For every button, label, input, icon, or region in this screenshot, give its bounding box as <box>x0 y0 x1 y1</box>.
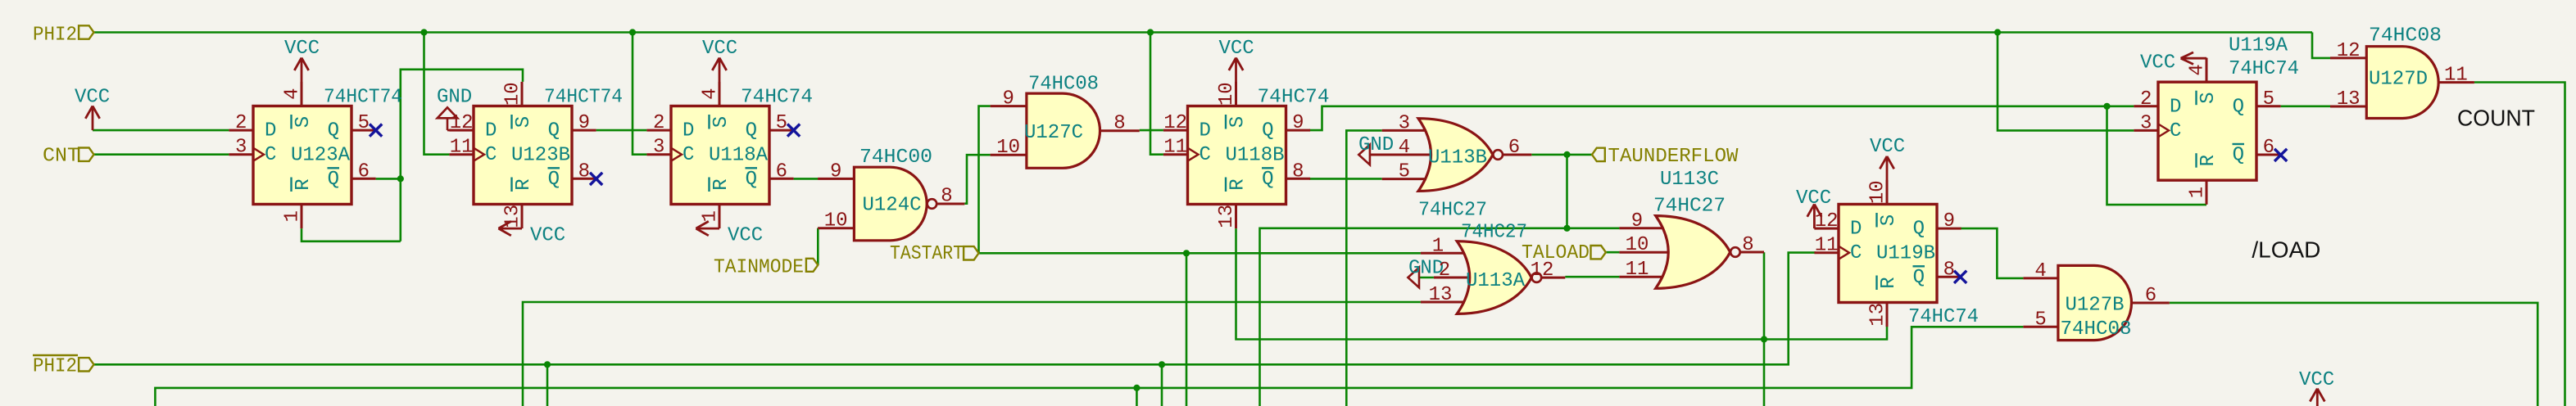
power VCC at U123B pin 13 <box>498 221 565 246</box>
svg-text:C: C <box>1200 144 1211 166</box>
wire PHI2-bar drop 2 <box>1161 364 1163 406</box>
net label PHI2-bar <box>33 355 94 378</box>
text /LOAD <box>2252 237 2320 263</box>
svg-text:4: 4 <box>1399 137 1410 159</box>
net label PHI2 <box>33 25 77 47</box>
svg-text:12: 12 <box>1163 112 1187 134</box>
power VCC at U119B pin 12 <box>1796 187 1839 228</box>
NAND gate U124C <box>818 147 964 241</box>
svg-text:U113B: U113B <box>1428 147 1487 169</box>
svg-text:8: 8 <box>941 186 952 208</box>
svg-text:2: 2 <box>235 112 247 134</box>
wire pin5 feed drop <box>1136 388 1138 406</box>
svg-text:12: 12 <box>2337 40 2361 62</box>
value 74HCT74 of U123B <box>544 87 623 109</box>
wire TALOAD to U113C pin 10 <box>1606 251 1620 254</box>
wire U113B pin 3 from off-sheet <box>1346 130 1381 406</box>
svg-text:1: 1 <box>1432 235 1444 257</box>
svg-text:74HC08: 74HC08 <box>1028 74 1099 96</box>
svg-text:9: 9 <box>830 160 841 183</box>
svg-text:S: S <box>1878 214 1900 226</box>
svg-text:R: R <box>710 178 732 190</box>
AND gate U127B <box>2023 260 2169 341</box>
svg-text:U123B: U123B <box>511 145 570 167</box>
svg-text:VCC: VCC <box>1796 187 1831 210</box>
svg-text:COUNT: COUNT <box>2457 106 2535 131</box>
svg-text:D: D <box>1850 219 1862 241</box>
svg-text:Q: Q <box>1913 219 1925 241</box>
svg-text:5: 5 <box>776 112 787 134</box>
wire TAINMODE to U124C pin 10 <box>817 228 819 265</box>
svg-text:10: 10 <box>824 210 848 232</box>
no-connect U123A pin 5 <box>370 124 382 137</box>
junction U119A D loop <box>2103 103 2110 110</box>
svg-text:VCC: VCC <box>2299 369 2334 391</box>
wire TASTART drop off-sheet <box>1186 253 1188 406</box>
wire PHI2 horizontal bus <box>94 31 2313 34</box>
svg-text:Q: Q <box>328 169 339 191</box>
svg-text:VCC: VCC <box>702 38 737 60</box>
svg-text:S: S <box>710 116 732 128</box>
svg-text:4: 4 <box>2187 64 2209 75</box>
svg-text:U127B: U127B <box>2066 295 2125 317</box>
svg-text:4: 4 <box>700 88 722 99</box>
value 74HC74 of U119B <box>1908 306 1979 328</box>
net label TASTART <box>890 243 979 265</box>
wire U127B out <box>2170 303 2537 406</box>
svg-text:10: 10 <box>996 137 1020 159</box>
flip-flop U118A 74HC74 <box>646 82 793 228</box>
svg-text:Q: Q <box>2233 96 2244 118</box>
junction TAUNDERFLOW/U113C <box>1563 225 1570 232</box>
svg-text:TASTART: TASTART <box>890 243 964 265</box>
svg-text:5: 5 <box>1399 161 1410 183</box>
svg-text:11: 11 <box>1626 259 1649 281</box>
wire U113A out to U113C pin 11 <box>1565 276 1619 278</box>
power VCC at U123A pin 2 <box>75 87 110 131</box>
wire TAUNDERFLOW down <box>1566 155 1568 228</box>
svg-text:C: C <box>2170 120 2181 142</box>
svg-text:Q: Q <box>746 169 757 191</box>
svg-text:12: 12 <box>450 112 474 134</box>
svg-text:5: 5 <box>358 112 370 134</box>
svg-text:13: 13 <box>1429 284 1453 306</box>
svg-text:Q: Q <box>1913 267 1925 289</box>
svg-text:D: D <box>683 120 694 142</box>
value 74HCT74 of U123A <box>324 87 402 109</box>
net label TALOAD <box>1522 242 1606 264</box>
svg-text:11: 11 <box>1815 235 1839 257</box>
power GND at U113B pin 4 <box>1358 134 1394 165</box>
svg-text:U113C: U113C <box>1660 169 1719 191</box>
wire U113C pin 9 feed <box>1260 228 1620 406</box>
svg-text:74HCT74: 74HCT74 <box>544 87 623 109</box>
svg-text:2: 2 <box>2140 88 2152 111</box>
svg-text:4: 4 <box>282 88 304 99</box>
svg-text:74HC27: 74HC27 <box>1418 200 1487 222</box>
svg-text:8: 8 <box>1943 259 1955 281</box>
wire PHI2 drop to U119A clock <box>1998 33 2134 131</box>
wire U124C out to U127C pin 10 <box>964 155 990 204</box>
flip-flop U118B 74HC74 <box>1163 82 1310 228</box>
svg-text:PHI2: PHI2 <box>33 356 77 378</box>
wire U113B out to TAUNDERFLOW <box>1531 154 1592 156</box>
wire U119B Q to U127B pin 4 <box>1961 228 2024 278</box>
svg-text:R: R <box>293 178 315 190</box>
svg-text:U123A: U123A <box>291 145 351 167</box>
svg-text:2: 2 <box>653 112 664 134</box>
svg-text:Q: Q <box>1262 120 1273 142</box>
svg-text:74HC74: 74HC74 <box>741 87 813 109</box>
wire U118B Q to U119A D <box>1309 106 2134 130</box>
svg-text:VCC: VCC <box>284 38 320 60</box>
svg-text:74HC27: 74HC27 <box>1653 196 1726 218</box>
svg-text:1: 1 <box>2187 187 2209 198</box>
svg-text:C: C <box>265 144 276 166</box>
junction PHI2/U123B <box>420 29 427 35</box>
svg-text:11: 11 <box>450 137 474 159</box>
power VCC bottom right <box>2299 369 2334 406</box>
wire PHI2 drop to U127D pin 12 <box>2312 33 2330 58</box>
svg-text:U119A: U119A <box>2229 35 2288 57</box>
power GND at U123B pin 12 <box>437 87 472 119</box>
svg-text:1: 1 <box>700 210 722 222</box>
svg-text:9: 9 <box>578 112 590 134</box>
svg-text:9: 9 <box>1002 88 1014 111</box>
svg-text:C: C <box>1850 242 1862 264</box>
svg-text:VCC: VCC <box>530 224 565 246</box>
svg-text:PHI2: PHI2 <box>33 25 77 47</box>
wire U127D out COUNT <box>2474 83 2565 406</box>
text COUNT <box>2457 106 2535 131</box>
svg-text:R: R <box>513 178 535 190</box>
svg-text:5: 5 <box>2263 88 2274 111</box>
wire PHI2 drop to U118A clock <box>633 33 646 155</box>
svg-text:4: 4 <box>2034 260 2046 282</box>
svg-text:D: D <box>1200 120 1211 142</box>
svg-text:1: 1 <box>282 210 304 222</box>
junction TAUNDERFLOW <box>1563 151 1570 158</box>
power VCC at U123A pin 4 <box>284 38 320 106</box>
svg-text:74HC08: 74HC08 <box>2061 318 2132 341</box>
svg-text:U124C: U124C <box>863 195 922 217</box>
wire U119A Q to U127D pin 13 <box>2281 106 2330 108</box>
junction PHI2/U119A <box>1994 29 2001 35</box>
no-connect U118A pin 5 <box>787 124 800 137</box>
svg-text:6: 6 <box>2145 285 2156 307</box>
reference U119A <box>2229 35 2288 57</box>
svg-text:Q: Q <box>328 120 339 142</box>
svg-text:13: 13 <box>1216 205 1238 228</box>
svg-text:9: 9 <box>1292 112 1304 134</box>
GND stem U123B <box>447 118 474 130</box>
svg-text:GND: GND <box>437 87 472 109</box>
flip-flop U123A 74HCT74 <box>229 82 375 228</box>
svg-text:11: 11 <box>1163 137 1187 159</box>
junction pin5 feed <box>1133 385 1140 391</box>
svg-text:3: 3 <box>235 137 247 159</box>
wire U123B Q to U118A D <box>596 129 647 132</box>
svg-text:D: D <box>265 120 276 142</box>
svg-text:13: 13 <box>2337 88 2361 111</box>
svg-text:R: R <box>2197 155 2220 166</box>
net label TAUNDERFLOW <box>1592 146 1739 168</box>
svg-text:8: 8 <box>1292 160 1304 183</box>
svg-text:/LOAD: /LOAD <box>2252 237 2320 263</box>
svg-text:GND: GND <box>1358 134 1394 156</box>
svg-text:9: 9 <box>1943 210 1955 232</box>
svg-text:74HC27: 74HC27 <box>1461 222 1527 244</box>
svg-text:13: 13 <box>502 205 524 228</box>
wire U113A pin 13 feed <box>523 302 1421 406</box>
svg-text:TAINMODE: TAINMODE <box>714 257 804 279</box>
svg-text:10: 10 <box>502 82 524 106</box>
wire GND to U113A pin 2 <box>1419 277 1434 279</box>
wire U118A Q-bar to U124C <box>794 178 819 180</box>
power VCC at U118B pin 10 <box>1219 38 1254 106</box>
svg-text:S: S <box>1227 116 1249 128</box>
junction PHI2/U118A <box>629 29 636 35</box>
svg-text:8: 8 <box>578 160 590 183</box>
no-connect U119B pin 8 <box>1954 271 1966 283</box>
power VCC at U118A pin 4 <box>702 38 737 106</box>
svg-text:9: 9 <box>1631 210 1643 232</box>
value 74HC74 of U119A <box>2229 58 2299 80</box>
wire PHI2-bar drop 1 <box>546 364 549 406</box>
svg-text:6: 6 <box>358 160 370 183</box>
svg-text:Q: Q <box>548 120 560 142</box>
wire TASTART to U127C pin 9 <box>979 106 991 254</box>
junction PHI2-bar 1 <box>544 361 551 368</box>
svg-text:12: 12 <box>1531 259 1554 282</box>
svg-text:TAUNDERFLOW: TAUNDERFLOW <box>1608 146 1739 168</box>
svg-text:VCC: VCC <box>1219 38 1254 60</box>
svg-text:U118A: U118A <box>709 145 769 167</box>
svg-text:U127D: U127D <box>2369 69 2428 91</box>
svg-text:U118B: U118B <box>1226 145 1285 167</box>
svg-text:Q: Q <box>746 120 757 142</box>
junction PHI2-bar 2 <box>1159 361 1165 368</box>
svg-text:Q: Q <box>548 169 560 191</box>
wire U119A D to R-bar loop <box>2107 106 2207 205</box>
svg-text:6: 6 <box>1508 137 1520 159</box>
svg-text:S: S <box>2197 92 2220 103</box>
svg-text:Q: Q <box>1262 169 1273 191</box>
svg-text:11: 11 <box>2444 65 2468 87</box>
svg-text:D: D <box>2170 96 2181 118</box>
net label TAINMODE <box>714 257 818 279</box>
svg-text:74HC08: 74HC08 <box>2369 25 2442 47</box>
wire U123A R-bar loop <box>302 228 401 241</box>
global label tag PHI2 <box>79 25 93 38</box>
power VCC at U119B pin 10 <box>1870 136 1905 205</box>
svg-text:6: 6 <box>2263 137 2274 159</box>
value 74HC74 of U118A <box>741 87 813 109</box>
flip-flop U123B 74HCT74 <box>449 82 596 228</box>
power GND at U113A pin 2 <box>1408 258 1444 288</box>
no-connect U119A pin 6 <box>2274 149 2287 161</box>
svg-text:VCC: VCC <box>728 224 763 246</box>
svg-text:VCC: VCC <box>2140 52 2175 74</box>
svg-text:VCC: VCC <box>75 87 110 109</box>
svg-text:3: 3 <box>653 137 664 159</box>
svg-text:3: 3 <box>2140 112 2152 134</box>
svg-text:10: 10 <box>1216 82 1238 106</box>
svg-text:74HC74: 74HC74 <box>2229 58 2299 80</box>
svg-text:S: S <box>293 116 315 128</box>
wire U127B pin 5 feed <box>155 327 2023 406</box>
net label CNT <box>43 146 94 168</box>
wire U127C out to U118B D <box>1140 129 1163 132</box>
svg-text:10: 10 <box>1867 180 1889 204</box>
svg-text:13: 13 <box>1867 303 1889 327</box>
flip-flop U119A 74HC74 <box>2134 58 2280 205</box>
svg-text:10: 10 <box>1626 234 1649 256</box>
svg-text:8: 8 <box>1742 234 1753 256</box>
NOR gate U113C <box>1619 169 1764 288</box>
svg-text:74HC74: 74HC74 <box>1258 87 1330 109</box>
wire PHI2-bar <box>94 253 1816 365</box>
power VCC at U119A pin 4 <box>2140 52 2206 83</box>
wire reset bus <box>1236 228 1888 339</box>
wire U123A Q-bar net vertical <box>401 70 523 241</box>
svg-text:12: 12 <box>1815 210 1839 232</box>
svg-text:C: C <box>683 144 694 166</box>
svg-text:U113A: U113A <box>1466 270 1526 292</box>
AND gate U127D <box>2330 25 2474 119</box>
wire PHI2 drop to U118B clock <box>1150 33 1163 155</box>
svg-text:VCC: VCC <box>1870 136 1905 158</box>
svg-text:6: 6 <box>776 160 787 183</box>
svg-text:U127C: U127C <box>1024 122 1083 144</box>
svg-text:74HC74: 74HC74 <box>1908 306 1979 328</box>
svg-text:U119B: U119B <box>1876 243 1935 265</box>
AND gate U127C <box>991 74 1140 169</box>
svg-text:Q: Q <box>2233 145 2244 167</box>
svg-text:74HC00: 74HC00 <box>859 147 932 169</box>
junction U123A Q-bar <box>397 175 404 182</box>
svg-text:74HCT74: 74HCT74 <box>324 87 402 109</box>
svg-text:8: 8 <box>1113 113 1125 135</box>
svg-text:3: 3 <box>1399 112 1410 134</box>
junction TASTART <box>1183 250 1190 256</box>
wire CNT to U123A clock <box>94 153 229 156</box>
wire U113C out down <box>1763 252 1766 406</box>
svg-text:S: S <box>513 116 535 128</box>
NOR gate U113B <box>1370 112 1531 221</box>
wire VCC to U123A D <box>93 129 229 132</box>
wire TASTART to U113A pin 1 <box>979 252 1421 255</box>
wire PHI2 drop to U123B clock <box>424 33 450 155</box>
wire U123A Q-bar to junction <box>376 178 401 180</box>
flip-flop U119B 74HC74 <box>1814 180 1961 327</box>
junction PHI2/U118B <box>1147 29 1154 35</box>
junction reset <box>1761 336 1767 342</box>
value 74HC74 of U118B <box>1258 87 1330 109</box>
svg-text:C: C <box>485 144 497 166</box>
svg-text:CNT: CNT <box>43 146 79 168</box>
wire U118B Q-bar to U113B pin 5 <box>1309 178 1382 180</box>
NOR gate U113A <box>1421 222 1565 314</box>
power VCC at U118A pin 1 <box>696 221 763 246</box>
svg-text:D: D <box>485 120 497 142</box>
svg-text:R: R <box>1227 178 1249 190</box>
no-connect U123B pin 8 <box>590 173 602 185</box>
svg-text:2: 2 <box>1439 259 1450 282</box>
svg-text:R: R <box>1878 277 1900 288</box>
svg-text:5: 5 <box>2034 309 2046 331</box>
